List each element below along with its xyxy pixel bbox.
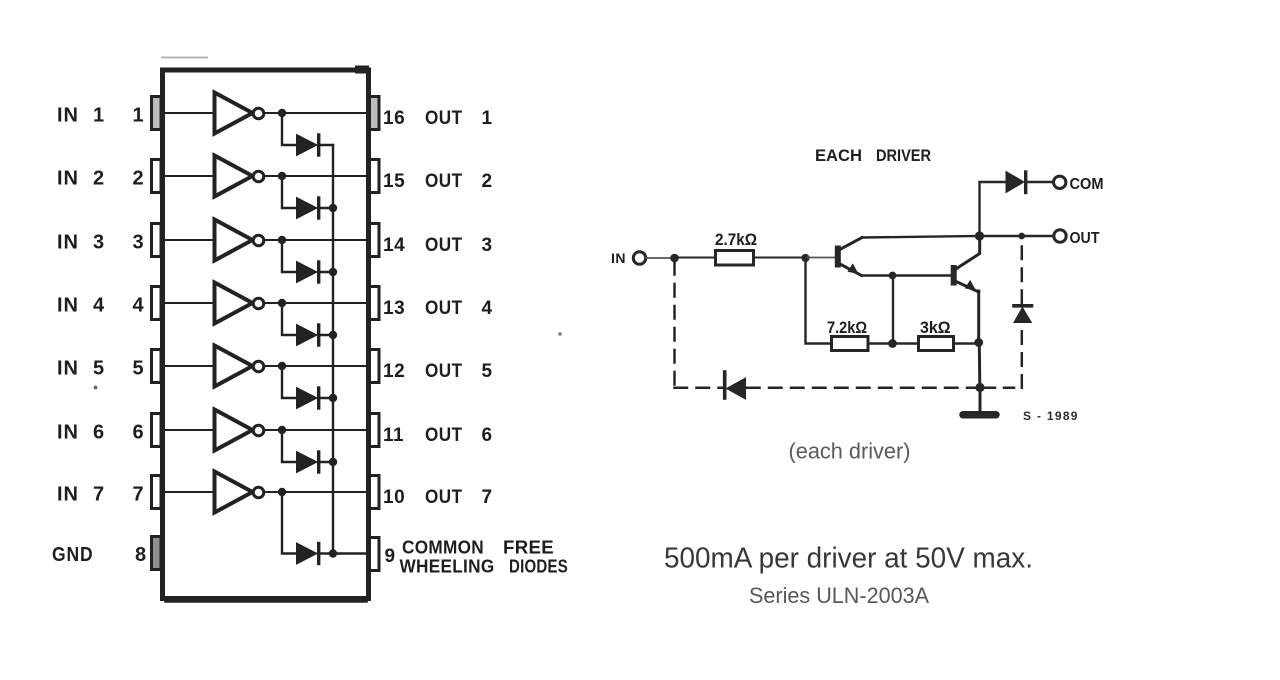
transistor Q2 emitter lead [955,281,979,292]
inverter A1 output bubble [253,108,264,119]
wire inverter A6 output to pin 11 (OUT 6) [264,429,369,431]
svg-text:IN: IN [57,232,79,254]
svg-text:DIODES: DIODES [509,557,568,577]
svg-text:2: 2 [93,168,105,190]
svg-text:7: 7 [481,487,492,508]
node: diode D7 junction on common rail [329,549,337,557]
transistor Q1 collector lead [839,238,862,251]
svg-text:5: 5 [481,361,492,382]
svg-text:(each driver): (each driver) [789,439,911,464]
pin 6 (IN 6) [152,414,162,447]
svg-text:FREE: FREE [503,538,554,558]
svg-text:WHEELING: WHEELING [400,557,495,577]
inverter A5 [215,346,253,387]
freewheeling diode D1 [297,135,318,156]
svg-text:GND: GND [52,544,94,566]
node: diode D2 junction on common rail [329,204,337,212]
wire inverter A1 output to pin 16 (OUT 1) [264,112,369,114]
svg-text:3: 3 [481,235,492,256]
pin 9 (COMMON FREE WHEELING DIODES) [370,538,380,571]
terminal IN circle [633,252,645,264]
svg-text:10: 10 [383,487,405,508]
wire inverter A4 output to pin 13 (OUT 4) [264,302,369,304]
ground symbol [963,411,996,419]
pin 11 (OUT 6) [370,414,380,447]
pin 2 (IN 2) [152,160,162,193]
node: output 7 junction [278,488,286,496]
svg-text:OUT: OUT [425,171,463,192]
wire pin 7 to inverter A7 input [161,491,214,493]
transistor Q2 emitter arrow [965,280,976,291]
svg-text:OUT: OUT [425,298,463,319]
svg-text:COM: COM [1070,176,1104,193]
svg-text:6: 6 [481,425,492,446]
svg-text:IN: IN [57,295,79,317]
wire node C to OUT terminal [980,235,1054,237]
inverter A5 output bubble [253,361,264,372]
svg-text:13: 13 [383,298,405,319]
svg-text:3: 3 [93,232,105,254]
terminal OUT circle [1054,230,1066,242]
pin 13 (OUT 4) [370,287,380,320]
wire diode D2 cathode to common rail [318,207,333,209]
wire R1 to node B [755,257,806,259]
wire pin 4 to inverter A4 input [161,302,214,304]
node F junction (ground / dashed rail) [975,383,984,392]
resistor R3 3 kOhm [919,337,954,351]
freewheeling diode D4 [297,325,318,346]
diode D9 (input substrate clamp) [723,372,727,398]
node: output 3 junction [278,236,286,244]
node C junction (collector rail) [975,231,984,240]
svg-text:6: 6 [93,422,105,444]
wire output 5 node down to diode D5 [282,366,297,398]
IC body [163,70,369,599]
svg-text:DRIVER: DRIVER [876,147,931,165]
svg-text:Series ULN-2003A: Series ULN-2003A [749,583,929,608]
pin 3 (IN 3) [152,224,162,257]
transistor Q1 emitter arrow [848,263,859,274]
wire node H to resistor R3 [893,342,919,344]
wire inverter A5 output to pin 12 (OUT 5) [264,365,369,367]
svg-text:OUT: OUT [425,235,463,256]
svg-text:IN: IN [57,422,79,444]
wire diode D6 cathode to common rail [318,461,333,463]
svg-text:500mA per driver at 50V max.: 500mA per driver at 50V max. [664,543,1033,575]
node: diode D5 junction on common rail [329,394,337,402]
inverter A7 output bubble [253,487,264,498]
wire inverter A7 output to pin 10 (OUT 7) [264,491,369,493]
dashed wire: bottom rail right segment [985,387,1022,390]
freewheeling diode D2 [297,198,318,219]
svg-text:7: 7 [132,484,144,506]
wire node E to node F [978,343,982,388]
node G junction (zener tap) [1018,233,1025,240]
wire node H up to node D [892,276,894,344]
diode D10 (output clamp) [1014,304,1032,308]
svg-text:1: 1 [481,108,492,129]
wire output 2 node down to diode D2 [282,176,297,208]
svg-text:11: 11 [383,425,404,446]
svg-text:OUT: OUT [1070,230,1100,247]
wire node C up to diode D8 [980,182,1007,236]
node: diode D3 junction on common rail [329,268,337,276]
diode D8 (COM clamp) [1006,172,1024,193]
svg-text:15: 15 [383,171,405,192]
pin 7 (IN 7) [152,476,162,509]
pin 16 (OUT 1) [370,97,380,130]
svg-text:3kΩ: 3kΩ [920,319,951,337]
svg-text:4: 4 [93,295,105,317]
inverter A2 [215,156,253,197]
svg-text:6: 6 [132,422,144,444]
pin 12 (OUT 5) [370,350,380,383]
svg-text:2: 2 [481,171,492,192]
resistor R2 7.2 kOhm [832,337,869,351]
inverter A3 output bubble [253,235,264,246]
node: output 1 junction [278,109,286,117]
common freewheeling-diode rail (to pin 9) [332,145,334,554]
transistor Q2 base bar [951,265,957,286]
wire node F to ground [979,388,982,412]
pin 10 (OUT 7) [370,476,380,509]
transistor Q2 collector lead [955,236,980,270]
inverter A3 [215,220,253,261]
wire pin 6 to inverter A6 input [161,429,214,431]
inverter A4 output bubble [253,298,264,309]
svg-text:1: 1 [93,105,105,127]
svg-text:4: 4 [481,298,492,319]
transistor Q1 emitter lead [839,264,862,276]
wire Q1 emitter to Q2 base [862,274,952,276]
pin 8 (GND) [152,537,162,570]
svg-text:IN: IN [57,105,79,127]
svg-text:5: 5 [93,358,105,380]
inverter A1 [215,93,253,134]
svg-text:2: 2 [132,168,144,190]
transistor Q1 base bar [835,246,841,268]
inverter A4 [215,283,253,324]
wire inverter A3 output to pin 14 (OUT 3) [264,239,369,241]
dashed wire: node A down (substrate net) [673,262,676,388]
svg-text:7.2kΩ: 7.2kΩ [827,319,867,337]
pin 4 (IN 4) [152,287,162,320]
node A junction [670,254,679,263]
svg-text:OUT: OUT [425,108,463,129]
svg-text:OUT: OUT [425,425,463,446]
dashed wire: bottom rail middle segment [747,387,975,390]
svg-text:5: 5 [132,358,144,380]
svg-text:IN: IN [57,484,79,506]
wire output 7 node down to diode D7 [282,492,297,554]
svg-text:16: 16 [383,108,405,129]
svg-text:IN: IN [57,358,79,380]
node H junction (between R2 and R3) [888,339,897,348]
wire common rail to pin 9 [333,552,370,554]
wire R3 to node E [954,342,979,344]
wire pin 3 to inverter A3 input [161,239,214,241]
node: output 4 junction [278,299,286,307]
wire diode D8 to COM terminal [1026,181,1053,183]
svg-text:2.7kΩ: 2.7kΩ [715,231,757,249]
wire pin 2 to inverter A2 input [161,175,214,177]
wire diode D3 cathode to common rail [318,271,333,273]
wire IN terminal to node A [646,257,672,259]
pin 1 (IN 1) [152,97,162,130]
wire pin 5 to inverter A5 input [161,365,214,367]
svg-text:IN: IN [611,250,626,266]
wire diode D4 cathode to common rail [318,334,333,336]
inverter A6 output bubble [253,425,264,436]
svg-text:9: 9 [384,546,395,567]
wire node A to resistor R1 [675,257,716,259]
wire diode D7 cathode to common rail [318,552,333,554]
wire diode D1 cathode to common rail [318,144,333,146]
inverter A7 [215,472,253,513]
wire Q2 emitter down to node E [977,291,980,342]
wire output 6 node down to diode D6 [282,430,297,462]
wire inverter A2 output to pin 15 (OUT 2) [264,175,369,177]
dashed wire: bottom rail left segment [675,387,723,390]
node: diode D6 junction on common rail [329,458,337,466]
wire node B to Q1 base [806,257,836,259]
freewheeling diode D6 [297,452,318,473]
svg-text:7: 7 [93,484,105,506]
node B junction [801,254,809,262]
wire diode D5 cathode to common rail [318,397,333,399]
dashed wire: right vertical lower segment [1021,324,1024,388]
wire output 3 node down to diode D3 [282,240,297,272]
wire pin 1 to inverter A1 input [161,112,214,114]
pin 14 (OUT 3) [370,224,380,257]
freewheeling diode D5 [297,388,318,409]
node E junction (3k / emitter) [974,338,983,347]
node: diode D4 junction on common rail [329,331,337,339]
inverter A6 [215,410,253,451]
wire Q1 collector to node C [862,236,980,238]
wire output 1 node down to diode D1 [282,113,297,145]
freewheeling diode D3 [297,262,318,283]
svg-text:1: 1 [132,105,144,127]
svg-text:OUT: OUT [425,487,463,508]
svg-text:S - 1989: S - 1989 [1023,409,1079,423]
inverter A2 output bubble [253,171,264,182]
resistor R1 2.7 kOhm [716,251,754,266]
freewheeling diode D7 [297,543,318,564]
svg-text:12: 12 [383,361,405,382]
svg-text:4: 4 [132,295,144,317]
wire R2 to node H [868,342,892,344]
dashed wire: right vertical upper segment [1021,240,1024,303]
svg-text:IN: IN [57,168,79,190]
svg-text:14: 14 [383,235,405,256]
svg-text:8: 8 [135,544,147,566]
pin 5 (IN 5) [152,350,162,383]
node: output 2 junction [278,172,286,180]
svg-text:3: 3 [132,232,144,254]
svg-text:COMMON: COMMON [402,538,484,558]
wire node B down to resistor R2 [806,258,832,344]
node: output 5 junction [278,362,286,370]
node: output 6 junction [278,426,286,434]
svg-text:OUT: OUT [425,361,463,382]
wire output 4 node down to diode D4 [282,303,297,335]
svg-text:EACH: EACH [815,147,862,165]
node D junction (emitter / R2 rail) [889,272,897,280]
pin 15 (OUT 2) [370,160,380,193]
terminal COM circle [1054,176,1066,188]
